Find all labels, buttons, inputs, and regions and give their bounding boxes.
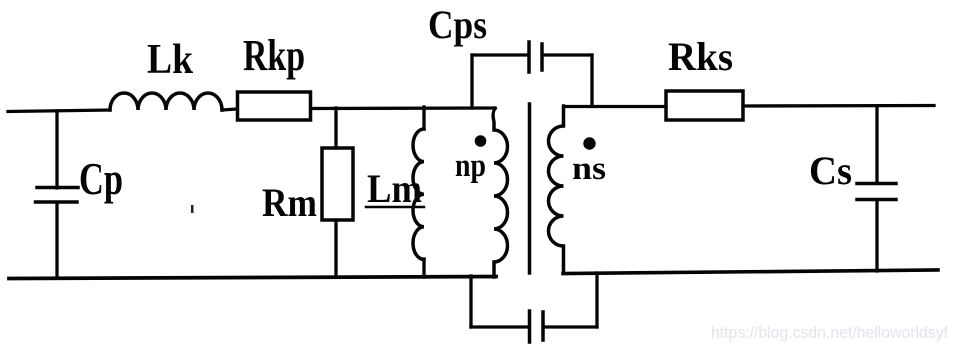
svg-text:Lm: Lm (367, 166, 422, 211)
svg-text:ns: ns (572, 151, 606, 187)
stray scan mark (191, 205, 194, 213)
wire bottom capacitor left horizontal (471, 325, 528, 328)
wire Cs branch upper (875, 106, 878, 183)
inductor Lk (110, 93, 222, 110)
polarity dot np (475, 135, 487, 147)
resistor Rm (322, 148, 353, 220)
wire Cp branch upper (55, 111, 58, 188)
wire ns to Rks (564, 105, 666, 108)
wire bottom-right (563, 270, 938, 274)
capacitor Cps (529, 42, 542, 72)
svg-text:Cps: Cps (428, 2, 487, 47)
wire Cps left horizontal (472, 53, 528, 56)
polarity dot ns (583, 137, 595, 149)
svg-text:np: np (455, 148, 486, 184)
transformer secondary winding ns (549, 106, 564, 272)
wire top-left input (8, 110, 110, 112)
svg-text:Rkp: Rkp (243, 31, 305, 80)
inductor Lm (413, 129, 424, 259)
wire Rm branch lower (334, 220, 337, 277)
wire Rks to output (743, 104, 934, 108)
wire Rm branch upper (334, 108, 337, 148)
svg-text:Cp: Cp (79, 153, 123, 204)
capacitor Cp (36, 188, 79, 203)
wire Lm branch upper (422, 107, 425, 129)
wire Lk to Rkp (222, 109, 237, 110)
capacitor Cs (857, 184, 896, 200)
wire Lm branch lower (422, 259, 425, 277)
wire Cp branch lower (55, 203, 58, 278)
wire bottom-left (9, 277, 496, 279)
wire Cps right horizontal (543, 53, 592, 56)
svg-text:Rks: Rks (668, 34, 733, 79)
wire bottom capacitor right horizontal (544, 325, 597, 328)
svg-text:Cs: Cs (809, 148, 852, 193)
wire bottom capacitor left vertical (469, 276, 472, 327)
wire Cps left vertical (470, 55, 473, 108)
wire Rkp to np (311, 106, 495, 110)
wire Cps right vertical (590, 55, 593, 106)
svg-text:Rm: Rm (262, 180, 317, 225)
label Lm (366, 166, 424, 211)
svg-text:Lk: Lk (147, 37, 194, 83)
resistor Rkp (238, 92, 311, 120)
resistor Rks (666, 91, 743, 120)
svg-text:https://blog.csdn.net/hellowor: https://blog.csdn.net/helloworldsyf (711, 323, 948, 342)
transformer core (528, 104, 532, 273)
transformer primary winding np (493, 109, 508, 278)
wire bottom capacitor right vertical (595, 273, 598, 327)
capacitor bottom interwinding (530, 311, 544, 342)
wire Cs branch lower (875, 201, 878, 272)
